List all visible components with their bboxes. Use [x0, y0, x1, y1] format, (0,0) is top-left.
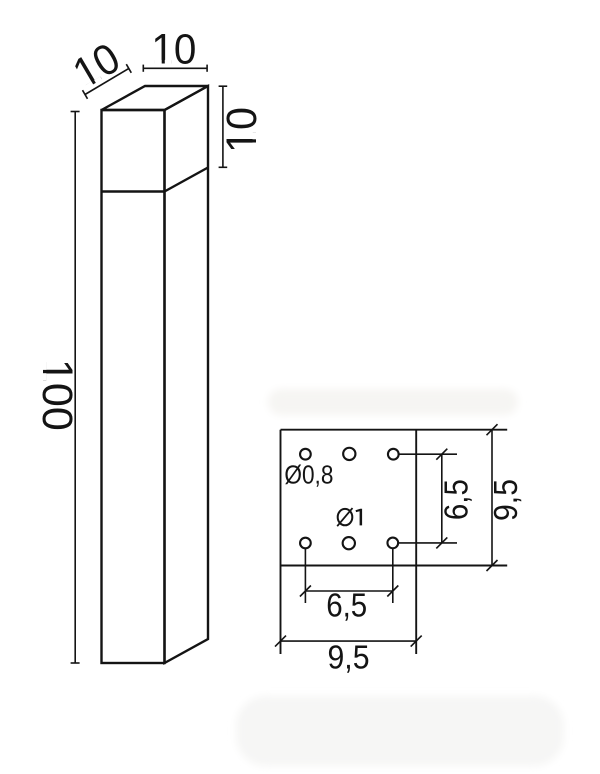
label diameter 1 — [337, 508, 362, 526]
svg-text:9,5: 9,5 — [328, 639, 370, 676]
dimension line 6,5 horizontal — [305, 590, 392, 592]
hole top-left small — [300, 449, 311, 460]
plate top edge + extension — [281, 429, 508, 431]
svg-text:6,5: 6,5 — [326, 587, 367, 624]
dimension line 100 (post height) — [74, 112, 76, 664]
tick lower-left of slanted 10 — [83, 90, 88, 99]
tick bottom of right 10 — [219, 166, 228, 168]
plate bottom edge + extension — [281, 565, 508, 567]
faint smudge above plate — [268, 389, 518, 415]
slash tick right of horizontal 9,5 — [411, 636, 422, 647]
plate right edge + extension — [415, 430, 417, 654]
hole top-middle medium — [343, 448, 355, 460]
tick bottom of 100 — [71, 662, 80, 664]
lamp head divider front — [102, 190, 165, 192]
svg-text:9,5: 9,5 — [487, 479, 524, 521]
slash tick bottom of vertical 6,5 — [436, 537, 447, 548]
slash tick left of horizontal 9,5 — [275, 636, 286, 647]
post front face — [102, 110, 165, 663]
slash tick top of vertical 9,5 — [487, 424, 498, 435]
label 10 slanted — [65, 34, 128, 98]
extension from bottom-right hole horizontal — [399, 542, 457, 544]
faint smudge bottom — [236, 696, 564, 766]
dimension line 10 slanted (top depth) — [85, 69, 129, 95]
dimension line 6,5 vertical — [441, 454, 443, 543]
hole bottom-left small — [300, 538, 311, 549]
extension from bottom-right hole vertical — [392, 549, 394, 603]
tick left of top 10 — [142, 65, 144, 72]
tick top of right 10 — [219, 85, 228, 87]
slash tick bottom of vertical 9,5 — [487, 560, 498, 571]
tick upper-right of slanted 10 — [126, 64, 131, 73]
svg-text:10: 10 — [218, 107, 266, 153]
label 10 right — [218, 107, 266, 153]
extension from bottom-left hole vertical — [304, 549, 306, 603]
dimension line 10 top (top width) — [143, 67, 207, 69]
post side face — [165, 86, 209, 663]
label 100 — [33, 359, 81, 431]
tick top of 100 — [71, 111, 80, 113]
hole bottom-right small — [387, 538, 398, 549]
hole bottom-middle medium — [343, 537, 355, 549]
slash tick right of horizontal 6,5 — [387, 586, 398, 597]
svg-text:10: 10 — [65, 34, 128, 98]
dimension line 9,5 horizontal — [281, 640, 417, 642]
tick right of top 10 — [206, 65, 208, 72]
slash tick top of vertical 6,5 — [436, 449, 447, 460]
post top face — [102, 86, 209, 110]
lamp head divider side — [165, 168, 209, 192]
slash tick left of horizontal 6,5 — [300, 586, 311, 597]
dimension line 9,5 vertical — [491, 430, 493, 566]
label 10 top — [151, 25, 196, 73]
dimension line 10 right (head height) — [222, 86, 224, 167]
svg-text:10: 10 — [151, 25, 196, 73]
svg-text:Ø0,8: Ø0,8 — [284, 459, 333, 489]
hole top-right small — [388, 449, 399, 460]
extension from top-right hole — [399, 453, 457, 455]
svg-text:100: 100 — [33, 359, 81, 431]
svg-text:6,5: 6,5 — [438, 479, 475, 520]
plate left edge + extension — [280, 430, 282, 654]
